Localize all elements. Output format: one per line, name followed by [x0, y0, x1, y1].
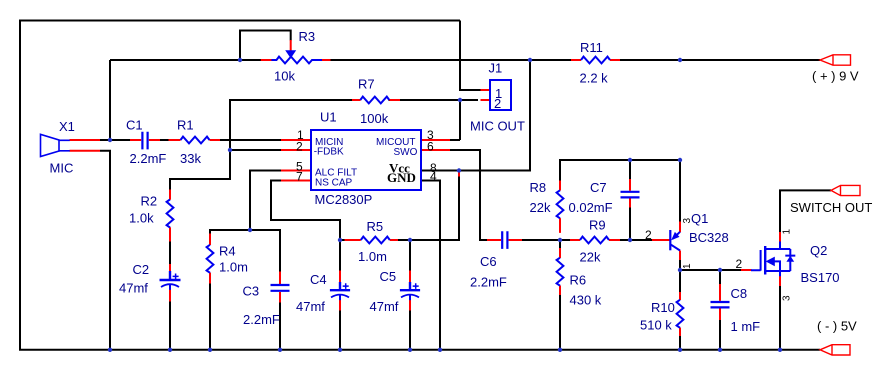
- resistor R3 red leads: [261, 59, 331, 61]
- svg-text:1.0m: 1.0m: [219, 260, 248, 275]
- svg-text:0.02mF: 0.02mF: [569, 200, 613, 215]
- value 2.2mF (C1): [130, 151, 167, 166]
- value 1.0m (R4): [219, 260, 248, 275]
- resistor R6 body: [557, 258, 564, 286]
- svg-text:10k: 10k: [274, 69, 295, 84]
- wire R3 wiper loop: [240, 31, 291, 61]
- transistor Q1 BC328 symbol: [670, 230, 680, 251]
- value BS170 (Q2): [801, 270, 840, 285]
- svg-text:C8: C8: [731, 286, 748, 301]
- label J1: [489, 61, 503, 76]
- label C2: [133, 262, 150, 277]
- value 1 mF (C8): [731, 319, 761, 334]
- wire R6 bottom to rail: [559, 295, 561, 350]
- wire left border (ground loop left): [19, 20, 21, 350]
- wire node VCC9 horizontal y=60 middle span: [331, 59, 572, 61]
- wire C8 bottom to rail: [719, 320, 721, 350]
- wire node VCC9 horizontal y=60 left span: [110, 59, 263, 61]
- wire U1 pin 6 SWO down to C6: [450, 150, 488, 240]
- label C1: [126, 118, 143, 133]
- wire node y270 horizontal to Q2 gate: [679, 269, 742, 271]
- svg-text:R9: R9: [589, 218, 606, 233]
- transistor Q2 source red lead: [779, 276, 781, 286]
- capacitor C7 red leads: [629, 179, 631, 208]
- resistor R8 body: [557, 190, 564, 218]
- wire C6 to R8 R9 node: [522, 239, 562, 241]
- wire R1 to U1 pin 1: [220, 139, 282, 141]
- wire R6 top stub: [559, 239, 561, 249]
- transistor Q1 emitter red lead: [679, 222, 681, 233]
- svg-text:2: 2: [645, 228, 652, 242]
- wire R4 column: [209, 229, 211, 350]
- svg-text:X1: X1: [59, 119, 75, 134]
- transistor Q2 gate red lead: [741, 269, 752, 271]
- wire R5 right stub: [398, 239, 412, 241]
- resistor R5 red leads: [345, 239, 399, 241]
- label MIC OUT: [470, 119, 525, 134]
- capacitor C3 plates: [271, 285, 290, 291]
- resistor R5 body: [361, 237, 390, 244]
- value 10k (R3): [274, 69, 295, 84]
- capacitor C3 red leads: [279, 272, 281, 303]
- value 2.2mF (C6): [470, 275, 507, 290]
- svg-text:C3: C3: [243, 284, 260, 299]
- svg-text:4: 4: [430, 170, 437, 184]
- resistor R7 red leads: [352, 99, 400, 101]
- wire R9 right stub: [620, 239, 632, 241]
- resistor R6 red leads: [559, 248, 561, 295]
- capacitor C7 plates: [621, 192, 640, 198]
- label R4: [219, 244, 236, 259]
- value 22k (R9): [580, 250, 601, 265]
- resistor R3 wiper red stub: [290, 40, 292, 51]
- svg-text:GND: GND: [387, 170, 416, 185]
- svg-text:R2: R2: [141, 194, 158, 209]
- value 0.02mF (C7): [569, 200, 613, 215]
- U1 pin 5 red lead: [281, 170, 311, 172]
- svg-text:33k: 33k: [180, 151, 201, 166]
- svg-text:C5: C5: [380, 269, 397, 284]
- U1 pin number 6: [427, 140, 434, 154]
- wire C5 column: [409, 239, 411, 350]
- U1 pin name MICIN: [315, 137, 343, 148]
- U1 pin number 3: [427, 128, 434, 142]
- label C5: [380, 269, 397, 284]
- node SWITCH OUT flag: [831, 185, 860, 195]
- svg-text:2.2mF: 2.2mF: [130, 151, 167, 166]
- wire U1 pin 4 GND down to rail: [421, 181, 440, 350]
- wire Q1 base stub: [629, 239, 653, 241]
- label Q2: [810, 243, 827, 258]
- Q2 pin number 3 rotated: [782, 295, 793, 301]
- label (+) 9 V: [812, 69, 859, 84]
- label (-) 5V: [817, 319, 857, 334]
- value 430 k (R6): [570, 293, 602, 308]
- node junction dots: [108, 58, 782, 352]
- capacitor C4 red leads: [339, 271, 341, 311]
- resistor R9 red leads: [570, 239, 620, 241]
- label MIC: [50, 161, 74, 176]
- resistor R10 red leads: [679, 292, 681, 336]
- svg-text:BC328: BC328: [689, 230, 729, 245]
- label C6: [480, 254, 497, 269]
- J1 pin 2 red lead: [481, 99, 491, 101]
- transistor Q1 base red lead: [652, 239, 670, 241]
- svg-text:Q1: Q1: [691, 211, 708, 226]
- wire C7 bottom stub: [629, 207, 631, 241]
- resistor R4 red leads: [209, 234, 211, 284]
- U1 pin 2 red lead: [281, 149, 311, 151]
- svg-text:C6: C6: [480, 254, 497, 269]
- Q2 pin number 2: [736, 257, 743, 271]
- resistor R1 body: [181, 137, 210, 144]
- Q1 pin number 3 rotated: [682, 218, 693, 224]
- svg-text:2.2mF: 2.2mF: [243, 312, 280, 327]
- svg-text:1.0m: 1.0m: [358, 249, 387, 264]
- svg-text:3: 3: [682, 218, 693, 224]
- U1 pin number 8: [430, 161, 437, 175]
- capacitor C6 red leads: [487, 239, 522, 241]
- svg-text:R11: R11: [580, 40, 603, 55]
- capacitor C6 plates: [502, 231, 507, 249]
- label R3: [299, 29, 316, 44]
- J1 pin number 1: [495, 86, 502, 101]
- wire R9 left stub: [560, 239, 571, 241]
- resistor R10 body: [677, 300, 684, 328]
- svg-text:2: 2: [296, 140, 303, 154]
- label C3: [243, 284, 260, 299]
- svg-text:3: 3: [782, 295, 793, 301]
- svg-text:R8: R8: [530, 180, 547, 195]
- svg-text:C4: C4: [310, 272, 327, 287]
- connector J1 box: [490, 80, 511, 110]
- label R9: [589, 218, 606, 233]
- wire vertical x=110 from y60 to mic line: [109, 60, 111, 140]
- value 510 k (R10): [640, 318, 672, 333]
- svg-text:U1: U1: [320, 110, 337, 125]
- value 100k (R7): [360, 111, 389, 126]
- transistor Q2 BS170 symbol: [751, 242, 795, 277]
- U1 pin name Vcc: [389, 161, 410, 176]
- wire R10 top stub: [679, 269, 681, 293]
- value 47mf (C2): [119, 281, 148, 296]
- resistor R1 red leads: [169, 139, 221, 141]
- svg-text:C7: C7: [590, 180, 607, 195]
- wire R7 right to junction and J1 pin 2: [389, 99, 479, 101]
- wire R7 left vertical to -FDBK and down to R2: [170, 99, 230, 193]
- transistor Q2 drain red lead: [779, 232, 781, 242]
- svg-text:2.2mF: 2.2mF: [470, 275, 507, 290]
- label R11: [580, 40, 603, 55]
- wire Q2 drain from switch out corner: [779, 190, 781, 232]
- svg-text:( + ) 9 V: ( + ) 9 V: [812, 69, 859, 84]
- wire R10 bottom to rail: [679, 336, 681, 350]
- wire C7 top stub: [629, 159, 631, 180]
- svg-text:1: 1: [782, 229, 793, 235]
- value 47mf (C5): [370, 299, 399, 314]
- U1 pin name GND: [387, 170, 416, 185]
- wire mic upper red lead: [70, 139, 101, 141]
- Q1 pin number 1 rotated: [682, 263, 693, 269]
- value BC328 (Q1): [689, 230, 729, 245]
- wire node y160 horizontal R8 to Q1 emitter: [559, 159, 681, 161]
- wire R2 to C2 and C2 to ground rail: [169, 241, 171, 350]
- label R5: [367, 219, 384, 234]
- svg-text:R1: R1: [177, 118, 194, 133]
- node (-)5V flag: [820, 345, 850, 355]
- wire C5 node to Vcc riser: [410, 176, 459, 240]
- svg-text:47mf: 47mf: [296, 299, 325, 314]
- wire C1 to R1: [160, 139, 170, 141]
- U1 pin name NS CAP: [315, 178, 353, 189]
- svg-text:510 k: 510 k: [640, 318, 672, 333]
- wire U1 pin 8 Vcc line to 9V node: [421, 60, 530, 171]
- Q2 pin number 1 rotated: [782, 229, 793, 235]
- J1 pin number 2: [494, 96, 501, 111]
- wire Q2 source to rail: [779, 286, 781, 350]
- svg-text:Q2: Q2: [810, 243, 827, 258]
- wire mic upper lead to C1: [100, 139, 131, 141]
- label U1: [320, 110, 337, 125]
- U1 pin name -FDBK: [314, 147, 344, 158]
- svg-text:7: 7: [296, 170, 303, 184]
- U1 pin number 5: [296, 160, 303, 174]
- label SWITCH OUT: [790, 200, 872, 215]
- wire bottom ground rail: [19, 349, 820, 351]
- U1 pin number 1: [297, 128, 304, 142]
- wire Q1 collector to node y270: [679, 260, 681, 272]
- wire R5 left stub: [339, 239, 345, 241]
- capacitor C2 polarized plates: [160, 271, 181, 290]
- svg-text:R3: R3: [299, 29, 316, 44]
- wire U1 pin 5 to R4C3 rail: [250, 171, 281, 231]
- value 33k (R1): [180, 151, 201, 166]
- label R1: [177, 118, 194, 133]
- svg-text:2.2 k: 2.2 k: [580, 71, 609, 86]
- label R7: [358, 77, 375, 92]
- svg-text:2: 2: [494, 96, 501, 111]
- resistor R11 red leads: [571, 59, 620, 61]
- resistor R7 body: [360, 97, 389, 104]
- svg-text:SWITCH OUT: SWITCH OUT: [790, 200, 872, 215]
- resistor R3 wiper arrow: [285, 50, 296, 58]
- value 1.0m (R5): [358, 249, 387, 264]
- value 2.2 k (R11): [580, 71, 609, 86]
- wire U1 pin 7 to C4 node: [271, 181, 340, 242]
- svg-text:R7: R7: [358, 77, 375, 92]
- wire mic lower red lead: [70, 150, 101, 152]
- svg-text:1: 1: [682, 263, 693, 269]
- node (+)9V flag: [820, 55, 851, 65]
- svg-text:C1: C1: [126, 118, 143, 133]
- capacitor C1 left red lead: [130, 139, 141, 141]
- U1 pin number 2: [296, 140, 303, 154]
- U1 pin number 4: [430, 170, 437, 184]
- U1 pin name MICOUT: [376, 137, 415, 148]
- wire R4 C3 top rail: [209, 229, 281, 231]
- svg-text:6: 6: [427, 140, 434, 154]
- label C7: [590, 180, 607, 195]
- svg-text:R10: R10: [651, 300, 675, 315]
- svg-text:MIC: MIC: [50, 161, 74, 176]
- node VCC riser red stub: [458, 170, 460, 177]
- svg-text:R4: R4: [219, 244, 236, 259]
- U1 pin 7 red lead: [281, 180, 311, 182]
- label R8: [530, 180, 547, 195]
- svg-text:100k: 100k: [360, 111, 389, 126]
- capacitor C8 red leads: [719, 284, 721, 320]
- wire C8 top stub: [719, 269, 721, 285]
- resistor R9 body: [580, 237, 609, 244]
- wire U1 pin 2 horizontal: [230, 149, 281, 151]
- label C8: [731, 286, 748, 301]
- U1 pin 6 red lead: [421, 149, 450, 151]
- capacitor C4 polarized plates: [330, 282, 350, 300]
- capacitor C8 plates: [711, 302, 730, 307]
- wire mic lower lead down to ground rail: [100, 151, 110, 350]
- label MC2830P: [315, 192, 373, 207]
- wire C3 column: [279, 229, 281, 350]
- value 47mf (C4): [296, 299, 325, 314]
- svg-text:22k: 22k: [530, 200, 551, 215]
- wire U1 pin 3 MICOUT to riser: [450, 139, 460, 141]
- capacitor C5 red leads: [409, 271, 411, 311]
- svg-text:2: 2: [736, 257, 743, 271]
- capacitor C2 red leads: [169, 264, 171, 302]
- resistor R11 body: [581, 57, 610, 64]
- svg-text:1 mF: 1 mF: [731, 319, 761, 334]
- wire C4 column: [339, 239, 341, 350]
- label C4: [310, 272, 327, 287]
- U1 pin number 7: [296, 170, 303, 184]
- wire top border (ground loop top): [20, 20, 460, 22]
- svg-text:MC2830P: MC2830P: [315, 192, 373, 207]
- svg-text:1.0k: 1.0k: [129, 211, 154, 226]
- resistor R4 body: [207, 245, 214, 273]
- wire R7 left horizontal: [229, 99, 353, 101]
- svg-text:SWO: SWO: [394, 147, 418, 158]
- Q1 pin number 2: [645, 228, 652, 242]
- label Q1: [691, 211, 708, 226]
- resistor R2 red leads: [169, 190, 171, 242]
- resistor R3 body (potentiometer): [271, 57, 322, 64]
- U1 pin 3 red lead: [421, 139, 450, 141]
- svg-text:430 k: 430 k: [570, 293, 602, 308]
- value 2.2mF (C3): [243, 312, 280, 327]
- wire switch out horizontal: [779, 189, 831, 191]
- resistor R2 body: [167, 200, 174, 228]
- label R2: [141, 194, 158, 209]
- U1 pin name ALC FILT: [315, 168, 357, 179]
- wire R8 top stub: [559, 159, 561, 181]
- op-amp U1 MC2830P box: [311, 130, 421, 190]
- capacitor C5 polarized plates: [400, 282, 420, 300]
- svg-text:C2: C2: [133, 262, 150, 277]
- svg-text:J1: J1: [489, 61, 503, 76]
- svg-text:22k: 22k: [580, 250, 601, 265]
- svg-text:MIC OUT: MIC OUT: [470, 119, 525, 134]
- svg-text:-FDBK: -FDBK: [314, 147, 344, 158]
- svg-text:R5: R5: [367, 219, 384, 234]
- svg-text:R6: R6: [570, 273, 587, 288]
- J1 pin 1 red lead: [481, 89, 491, 91]
- wire top border down to J1 pin 1: [460, 21, 481, 91]
- resistor R8 red leads: [559, 181, 561, 233]
- svg-text:NS CAP: NS CAP: [315, 178, 353, 189]
- microphone X1 symbol: [41, 134, 70, 156]
- value 1.0k (R2): [129, 211, 154, 226]
- label R10: [651, 300, 675, 315]
- capacitor C1 plates: [142, 132, 147, 150]
- value 22k (R8): [530, 200, 551, 215]
- label R6: [570, 273, 587, 288]
- svg-text:47mf: 47mf: [370, 299, 399, 314]
- wire junction x460 down to U1 pin 3 riser: [459, 99, 461, 140]
- transistor Q1 collector red lead: [679, 251, 681, 261]
- wire Q1 emitter from y160: [679, 159, 681, 222]
- capacitor C1 right red lead: [149, 139, 160, 141]
- svg-text:( - ) 5V: ( - ) 5V: [817, 319, 857, 334]
- U1 pin name SWO: [394, 147, 418, 158]
- U1 pin 1 red lead: [281, 139, 311, 141]
- wire node VCC9 horizontal y=60 right span to 9V flag: [620, 59, 821, 61]
- svg-text:BS170: BS170: [801, 270, 840, 285]
- label X1: [59, 119, 75, 134]
- svg-text:47mf: 47mf: [119, 281, 148, 296]
